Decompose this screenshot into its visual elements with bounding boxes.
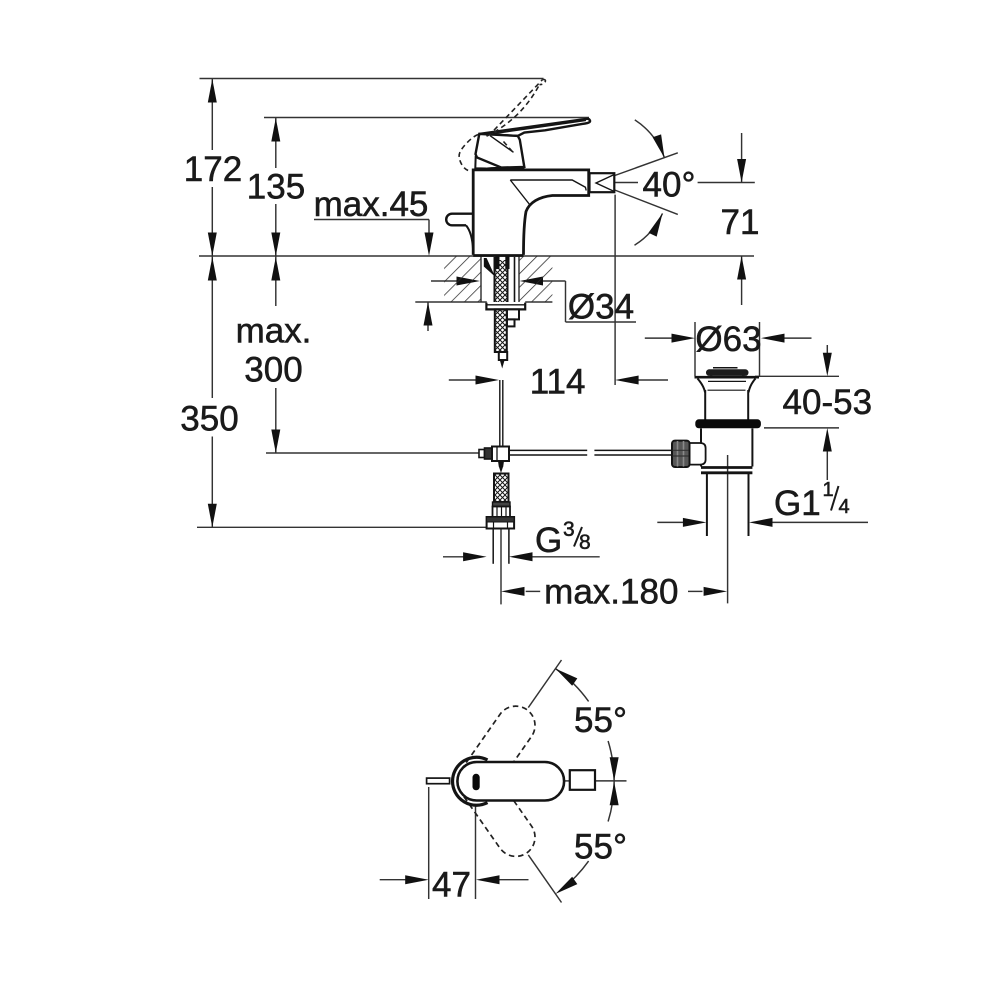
pin [427,778,450,784]
arrow dim114 left [476,376,500,385]
bottom view: 47 ext lines [428,787,430,899]
svg-text:135: 135 [247,168,305,207]
55 arcs [556,669,589,702]
40deg cone lines [595,153,678,183]
arrow 55deg center bottom [610,782,619,806]
svg-text:G1: G1 [774,484,821,523]
dashed lever [459,79,545,171]
dim 350 [211,256,213,398]
47 dim [380,879,406,881]
countertop hatch [444,256,552,302]
barrel [704,390,706,420]
svg-text:172: 172 [184,150,242,189]
dim max300 [275,256,277,306]
svg-text:350: 350 [180,400,238,439]
svg-text:55°: 55° [574,828,627,867]
hex nut [487,517,514,529]
arrow 40-53 bottom [823,428,832,452]
O34 leader [431,280,457,282]
handle capsule [457,762,564,801]
svg-text:71: 71 [721,203,760,242]
arrow O34 left [457,277,481,286]
arrow max45 upper [425,233,434,257]
knurled knob [672,441,690,467]
ref line top (172) [200,78,544,80]
rod ref line max300 [266,452,479,454]
braided hose [494,474,509,503]
arrow dim71 top [737,159,746,183]
svg-text:47: 47 [432,866,471,905]
arrow 55deg center top [610,757,619,781]
arrow dim47 right [476,875,500,884]
arrow G1-1/4 right [749,518,773,527]
svg-text:3: 3 [563,518,575,541]
flange [695,376,760,379]
max.45 leader [314,219,429,221]
faucet body [446,119,614,256]
slot [473,774,480,791]
deck bottom left [415,301,487,303]
dim 135 [275,118,277,168]
max.180 dim [526,590,541,592]
centerline drain [727,455,729,603]
arrow dim71 bottom [737,256,746,280]
arrow max300 bottom [271,430,280,454]
nut right of rod [507,309,519,319]
supply pipe [492,529,494,564]
svg-text:300: 300 [244,351,302,390]
neck and tip [499,352,507,360]
arrow dim135 top [271,118,280,142]
dashed rotated capsules [450,699,543,864]
arrow 55deg arc upper end [553,665,577,686]
svg-text:4: 4 [839,496,850,518]
bottom view centerline [563,780,570,782]
arrow dim350 bottom [208,504,217,528]
mousseur block [590,173,615,192]
G 3/8 dim [443,556,464,558]
svg-text:max.: max. [236,312,312,351]
arrow G1-1/4 left [683,518,707,527]
gasket [695,419,761,428]
71 dim [615,182,638,184]
arrow G3/8 right [509,552,533,561]
linkage T and hose [479,447,673,564]
flange [486,303,525,310]
arrow 40-53 top [823,353,832,377]
arrow max180 left [501,587,525,596]
svg-text:G: G [535,521,562,560]
centerline faucet bottom [500,529,502,605]
arrow dim47 left [405,875,429,884]
svg-text:40-53: 40-53 [783,383,873,422]
lever [479,119,590,136]
rod to drain [509,449,587,451]
arrow O63 left [672,334,696,343]
arrow O34 right [520,277,544,286]
svg-text:max.45: max.45 [314,185,429,224]
bottom view [427,699,595,864]
svg-text:Ø34: Ø34 [568,288,634,327]
svg-text:Ø63: Ø63 [695,320,761,359]
shank in hole [484,257,525,447]
arrow max180 right [704,587,728,596]
drain assembly [672,368,761,536]
svg-text:1: 1 [823,479,834,501]
arrow 40deg arc lower [648,211,666,236]
outer escutcheon arc [453,757,488,805]
arrow dim172 top [208,79,217,103]
arrow max45 lower [424,302,433,326]
bottom ref line 350 [197,526,487,528]
O63 dim [645,337,672,339]
plug [706,369,749,376]
arrow dim172 bottom [208,233,217,257]
deck bottom right [525,301,552,303]
pop-up rod [499,380,501,447]
40-53 dim [755,375,839,377]
svg-text:40°: 40° [643,166,696,205]
arrow dim350 top [208,257,217,281]
arrow 40deg arc upper [653,134,669,159]
G1 1/4 dim [657,521,683,523]
threaded rod [495,309,507,352]
svg-text:114: 114 [530,363,586,402]
lower body [700,428,702,466]
handle base [476,134,525,168]
dim 172 [211,79,213,150]
arrow 55deg arc lower end [553,877,577,898]
114 dim [449,379,476,381]
handle cap dome [478,168,525,170]
arrow G3/8 left [463,552,487,561]
svg-text:55°: 55° [574,701,627,740]
55 axis lines [528,660,561,708]
arrow max300 top [271,257,280,281]
svg-text:8: 8 [579,531,591,554]
svg-text:max.180: max.180 [544,573,678,612]
deck line [199,255,754,257]
arrow dim114 right [615,376,639,385]
40deg arcs [635,120,665,158]
left stub [446,214,473,226]
arrow O63 right [761,334,785,343]
spout rect [570,770,595,790]
arrowheads [208,79,832,898]
ref line 135 [264,117,589,119]
inner spout lines [510,180,586,191]
tailpipe [706,473,708,536]
arrow dim135 bottom [271,233,280,257]
